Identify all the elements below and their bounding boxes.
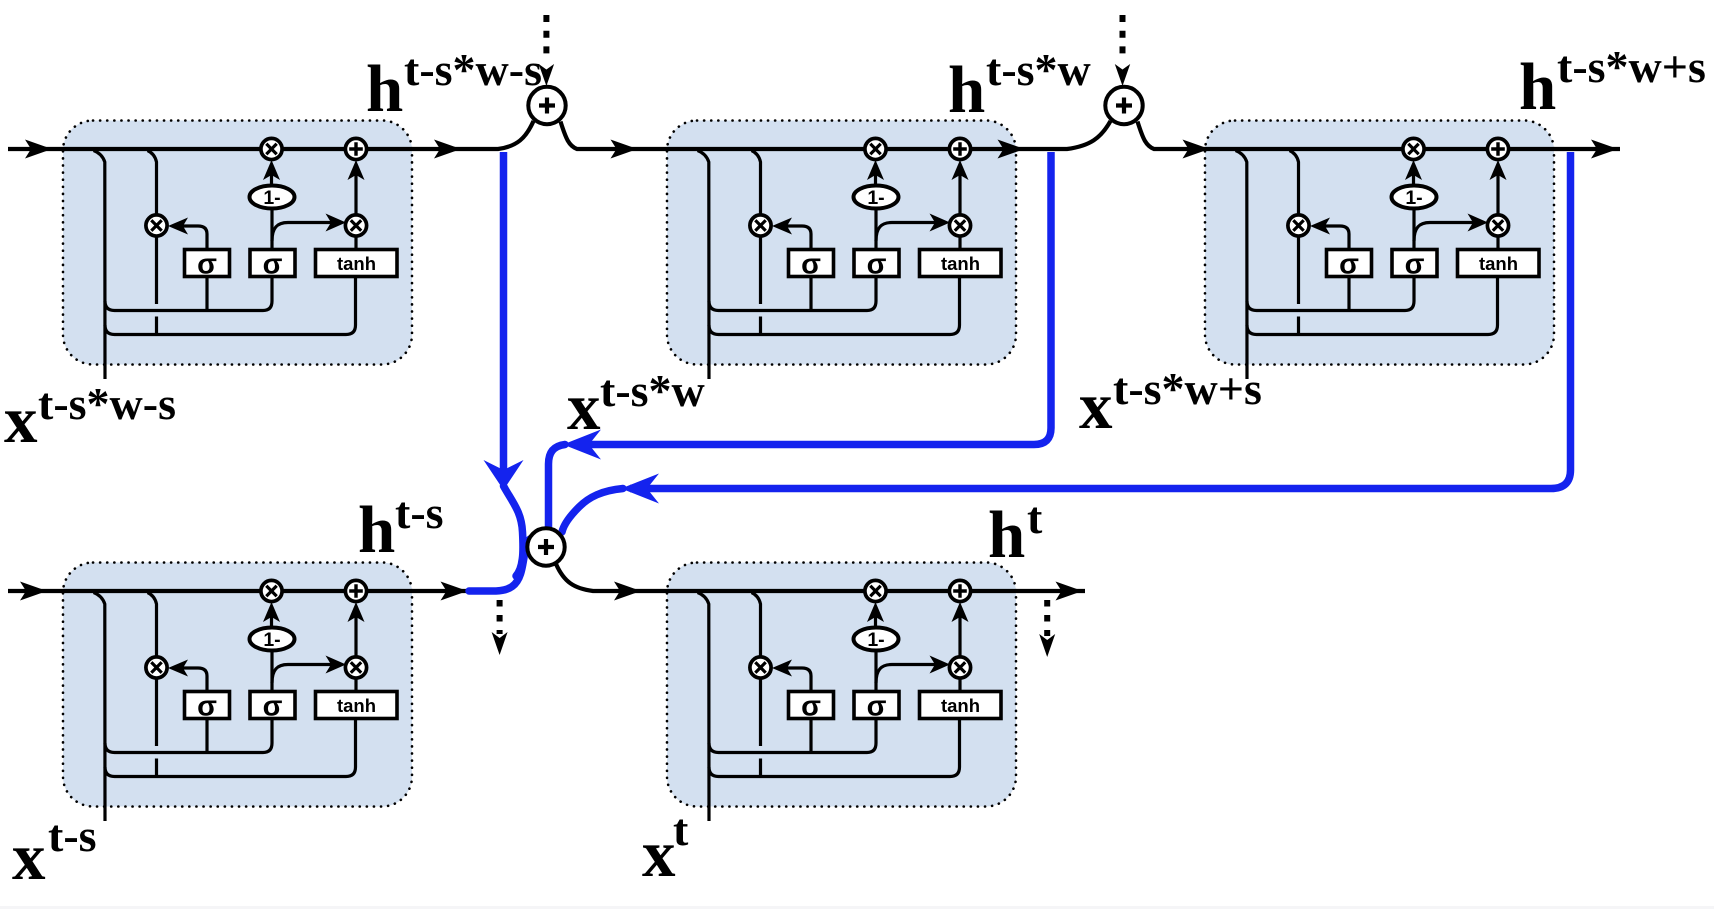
blue path 3: h(t-s*w+s) down and left into plus upper right [630, 152, 1571, 489]
cell 2 body [667, 121, 1016, 365]
plus node 1 [528, 87, 565, 124]
svg-text:t-s*w+s: t-s*w+s [1557, 41, 1706, 92]
svg-text:t-s: t-s [395, 487, 444, 538]
svg-text:x: x [12, 820, 46, 894]
cell 1 body [63, 121, 412, 365]
cell 3 body [1205, 121, 1554, 365]
blue path 1: h(t-s*w-s) down to plus node [500, 152, 508, 470]
blue path 2: h(t-s*w) down and left into plus top [573, 152, 1051, 445]
svg-text:t-s*w-s: t-s*w-s [38, 378, 176, 429]
row 2 arrowheads [20, 582, 47, 601]
svg-text:h: h [366, 52, 403, 126]
svg-text:t-s*w: t-s*w [986, 44, 1091, 95]
svg-text:h: h [988, 498, 1025, 572]
GRU cell 3 (top right) [1236, 138, 1540, 379]
svg-text:t-s*w: t-s*w [600, 365, 705, 416]
svg-text:t: t [673, 804, 689, 855]
plus node 2 [1105, 87, 1142, 124]
svg-text:h: h [358, 493, 395, 567]
GRU cell 4 (bottom left) [94, 580, 398, 821]
row 2 h line right segment from plus [556, 564, 1085, 591]
dashed arrow into plus node 2 [1120, 15, 1126, 61]
row 1 h line with bumps at plus nodes [8, 121, 1620, 149]
GRU cell 1 (top left) [94, 138, 398, 379]
svg-text:t-s: t-s [48, 810, 97, 861]
plus node 3 (row 2) [527, 528, 564, 565]
dashed arrow down from row2 h after cell 4 [497, 600, 503, 634]
row 1 arrowheads [25, 140, 52, 159]
dashed arrow into plus node 1 [543, 15, 549, 61]
svg-text:x: x [642, 817, 676, 891]
dashed arrow down from row2 h after cell 5 [1044, 600, 1050, 636]
cell 4 body [63, 563, 412, 807]
cell 5 body [667, 563, 1016, 807]
svg-text:x: x [567, 370, 601, 444]
svg-text:x: x [1079, 369, 1113, 443]
svg-text:t-s*w+s: t-s*w+s [1113, 363, 1262, 414]
svg-text:h: h [1519, 50, 1556, 124]
blue row2 h segment merging into plus [469, 539, 531, 592]
svg-text:t: t [1027, 492, 1043, 543]
svg-text:h: h [948, 53, 985, 127]
svg-text:x: x [4, 383, 38, 457]
GRU cell 5 (bottom middle) [698, 580, 1002, 821]
svg-text:t-s*w-s: t-s*w-s [404, 44, 542, 95]
faint bottom strip [0, 906, 1714, 909]
GRU cell 2 (top middle) [698, 138, 1002, 379]
row 2 h line left segment [8, 589, 471, 593]
